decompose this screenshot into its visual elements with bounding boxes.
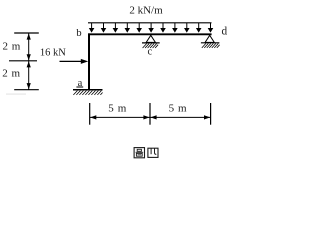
svg-text:2 kN/m: 2 kN/m xyxy=(129,5,163,17)
left dim tick middle xyxy=(9,60,37,62)
caption character tu (figure) xyxy=(134,148,144,158)
svg-text:5 m: 5 m xyxy=(108,103,127,115)
left dim tick bottom xyxy=(14,89,39,91)
support d triangle xyxy=(205,35,214,42)
beam b-d xyxy=(88,33,212,35)
svg-text:b: b xyxy=(76,27,81,39)
distributed load arrows xyxy=(90,23,213,32)
bottom dim tick left xyxy=(89,103,91,125)
left dim tick top xyxy=(14,32,39,34)
support d ground line xyxy=(201,42,220,44)
svg-text:2 m: 2 m xyxy=(2,68,20,80)
svg-text:5 m: 5 m xyxy=(169,103,188,115)
svg-text:c: c xyxy=(147,47,152,58)
support a hatching xyxy=(73,91,102,95)
force arrow 16 kN xyxy=(60,60,83,62)
left dim arrowheads xyxy=(27,33,31,89)
column a-b xyxy=(88,33,90,89)
support a ground line xyxy=(73,89,103,91)
support d hatching xyxy=(202,44,220,48)
support c hatching xyxy=(143,44,159,48)
support c ground line xyxy=(142,42,160,44)
bottom dim tick middle xyxy=(149,103,151,125)
bottom dim line right span xyxy=(150,116,210,118)
svg-text:2 m: 2 m xyxy=(2,40,20,52)
svg-text:d: d xyxy=(221,26,227,38)
caption character four xyxy=(148,148,158,157)
distributed load line xyxy=(88,22,212,24)
svg-text:16 kN: 16 kN xyxy=(40,47,66,58)
faint scan artifact line xyxy=(6,93,26,94)
support c triangle xyxy=(146,35,155,42)
a label underline xyxy=(76,86,83,88)
bottom dim line left span xyxy=(90,116,150,118)
left dimension line xyxy=(28,34,30,90)
bottom dim tick right xyxy=(210,103,212,125)
